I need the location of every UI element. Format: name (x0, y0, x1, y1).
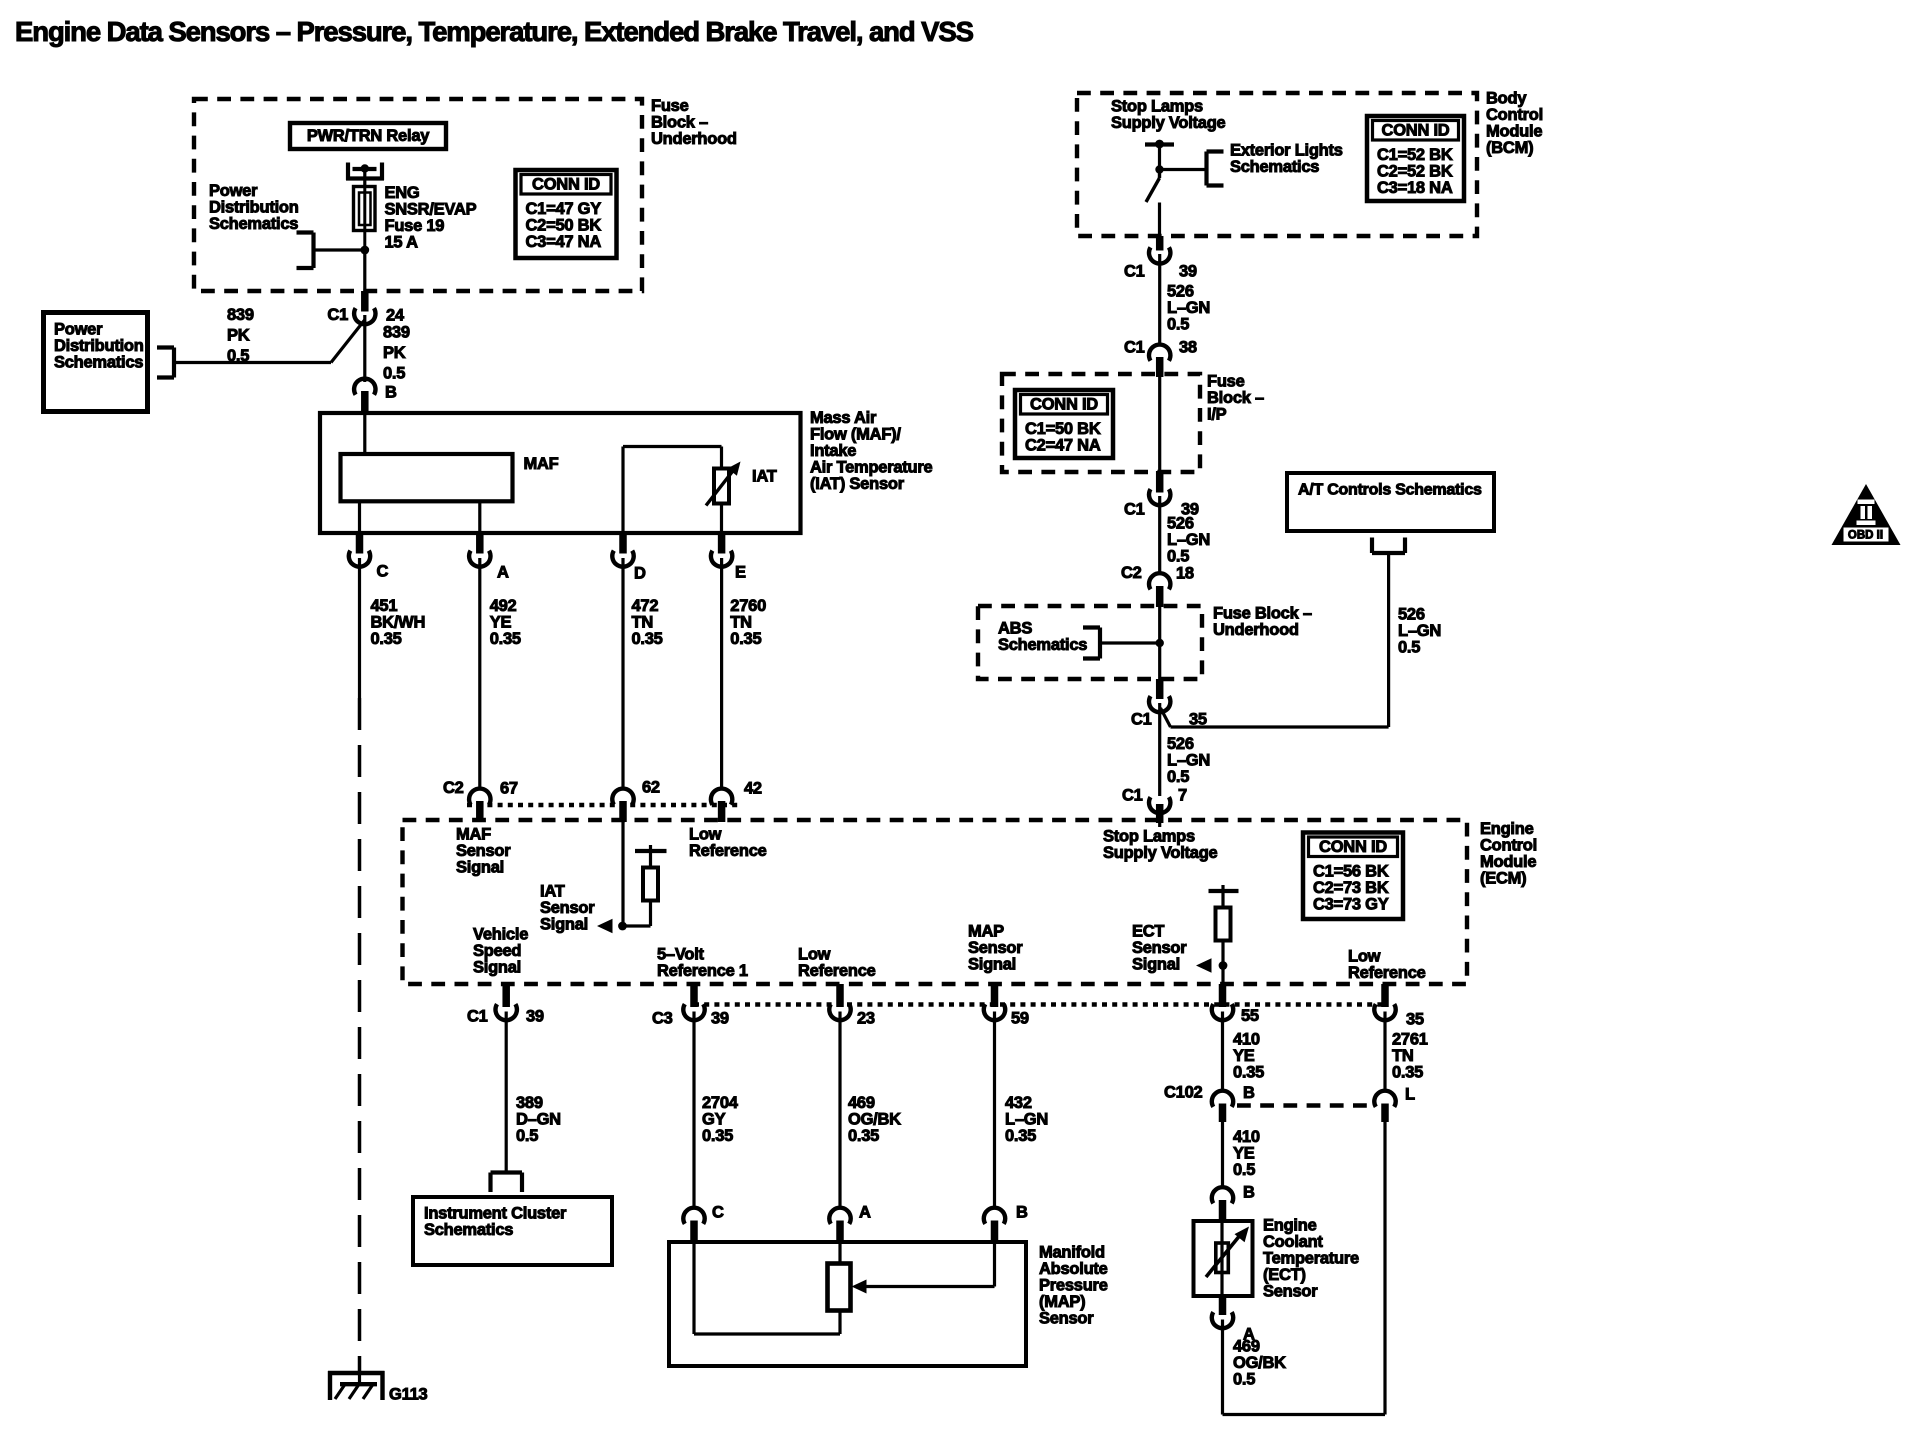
off-page connector to instrument cluster (491, 1170, 523, 1174)
wire 526 L-GN 0.5 (BCM to I/P) (1158, 254, 1161, 343)
box MAP sensor (669, 1242, 1026, 1366)
wire through fuse block I/P (1158, 377, 1161, 471)
conn-id table Fuse Block I/P (1015, 390, 1113, 458)
wire 2760 TN 0.35 (pin E) (720, 558, 723, 787)
svg-text:C2=52 BK: C2=52 BK (1377, 162, 1453, 180)
svg-text:24: 24 (386, 307, 405, 325)
wire 2704 GY 0.35 (692, 1012, 695, 1207)
svg-text:Power: Power (54, 321, 103, 339)
wire 839 PK 0.5 to Power Distribution Schematics (174, 361, 331, 364)
wire 526 L-GN 0.5 to ECM (1158, 703, 1161, 796)
svg-text:55: 55 (1241, 1007, 1259, 1025)
svg-text:0.5: 0.5 (383, 364, 405, 382)
svg-text:A: A (859, 1204, 871, 1222)
svg-text:B: B (1243, 1184, 1255, 1202)
svg-text:B: B (1243, 1084, 1255, 1102)
svg-text:Distribution: Distribution (54, 337, 144, 355)
svg-text:Reference 1: Reference 1 (657, 962, 748, 980)
OBD II symbol (1832, 484, 1901, 545)
svg-text:MAP: MAP (968, 923, 1004, 941)
svg-text:Reference: Reference (1348, 964, 1426, 982)
svg-text:Schematics: Schematics (1230, 158, 1319, 176)
svg-text:472: 472 (632, 597, 659, 615)
svg-text:Stop Lamps: Stop Lamps (1103, 828, 1195, 846)
svg-text:410: 410 (1233, 1128, 1260, 1146)
box Engine Control Module ECM (dashed) (403, 820, 1468, 984)
svg-text:C1=47 GY: C1=47 GY (526, 200, 602, 218)
svg-text:C2=50 BK: C2=50 BK (526, 216, 602, 234)
svg-text:Schematics: Schematics (54, 354, 143, 372)
svg-text:C3: C3 (652, 1010, 673, 1028)
svg-text:Reference: Reference (798, 962, 876, 980)
connector ECM C3 pin 23 (836, 984, 844, 1007)
arrow ECT Sensor Signal (1196, 958, 1212, 973)
svg-text:15 A: 15 A (385, 234, 419, 252)
svg-text:G113: G113 (389, 1386, 428, 1404)
svg-text:CONN ID: CONN ID (1382, 122, 1450, 140)
svg-text:7: 7 (1178, 787, 1187, 805)
connector MAP pin C (683, 1208, 704, 1224)
wire 451 BK/WH 0.35 (pin C, solid part) (358, 558, 361, 698)
svg-text:0.5: 0.5 (1167, 316, 1189, 334)
svg-text:Low: Low (1348, 948, 1381, 966)
svg-text:C3=18 NA: C3=18 NA (1377, 179, 1453, 197)
svg-text:0.35: 0.35 (1005, 1127, 1036, 1145)
svg-text:Vehicle: Vehicle (473, 926, 528, 944)
ECT variable arrow (1206, 1234, 1241, 1277)
connector line ECM bottom (dotted) (694, 1002, 1385, 1006)
svg-text:C2=73 BK: C2=73 BK (1313, 879, 1389, 897)
wire 410 YE 0.35 (1221, 1012, 1224, 1090)
svg-text:2761: 2761 (1392, 1031, 1428, 1049)
svg-text:389: 389 (516, 1094, 543, 1112)
wire IAT signal inside ECM (621, 822, 624, 926)
MAF sensing element (341, 454, 513, 501)
svg-text:C: C (712, 1204, 724, 1222)
svg-text:Manifold: Manifold (1039, 1244, 1105, 1262)
connector BCM C1 pin 39 (1156, 236, 1164, 251)
wire IAT leg E (720, 504, 723, 534)
off-page bracket Exterior Lights Schematics (1204, 152, 1208, 186)
svg-text:SNSR/EVAP: SNSR/EVAP (385, 201, 477, 219)
connector C1 pin 24 (361, 291, 369, 312)
svg-text:IAT: IAT (540, 883, 565, 901)
junction ECT sensor signal (1219, 961, 1228, 970)
svg-text:GY: GY (702, 1111, 726, 1129)
svg-text:ECT: ECT (1132, 923, 1164, 941)
connector line ECM C2 (dotted) (467, 803, 741, 807)
svg-text:Schematics: Schematics (424, 1221, 513, 1239)
svg-text:0.35: 0.35 (730, 630, 761, 648)
box ECT sensor (1194, 1221, 1253, 1296)
svg-text:39: 39 (526, 1008, 544, 1026)
svg-text:Low: Low (798, 946, 831, 964)
svg-text:0.35: 0.35 (1392, 1064, 1423, 1082)
svg-text:Flow (MAF)/: Flow (MAF)/ (810, 426, 901, 444)
svg-text:E: E (735, 564, 746, 582)
connector ECM C1 pin 7 (1149, 797, 1170, 813)
wire IAT leg D (621, 447, 624, 534)
svg-text:MAF: MAF (524, 455, 559, 473)
wire BCM supply to switch (1158, 145, 1161, 171)
svg-text:Body: Body (1486, 90, 1527, 108)
svg-text:469: 469 (1233, 1338, 1260, 1356)
svg-text:A: A (497, 564, 509, 582)
off-page connector A/T controls (1372, 551, 1405, 555)
junction IAT sensor signal (618, 922, 627, 931)
connector ECM C3 pin 39 (690, 984, 698, 1007)
wire 839 PK 0.5 branch diagonal (331, 320, 365, 363)
relay contact terminal symbol (346, 163, 350, 181)
connector ECM C3 pin 59 (991, 984, 999, 1007)
svg-text:B: B (385, 384, 397, 402)
svg-text:Sensor: Sensor (1132, 939, 1187, 957)
svg-text:ABS: ABS (998, 620, 1032, 638)
svg-text:Mass Air: Mass Air (810, 409, 877, 427)
IAT pull-up resistor (649, 851, 652, 868)
MAP potentiometer (838, 1311, 841, 1335)
wire ECT return to low reference (1223, 1413, 1386, 1416)
wire to G113 (dashed) (358, 698, 362, 1372)
IAT variable arrow (706, 470, 734, 506)
wire ABS branch (1100, 641, 1160, 644)
svg-text:Module: Module (1480, 853, 1536, 871)
svg-text:432: 432 (1005, 1094, 1032, 1112)
svg-text:C1: C1 (1124, 501, 1145, 519)
connector ECT pin B (1212, 1187, 1233, 1203)
off-page bracket to Power Distribution Schematics (311, 233, 315, 269)
svg-text:C3=73 GY: C3=73 GY (1313, 895, 1389, 913)
svg-text:451: 451 (371, 597, 398, 615)
svg-text:Signal: Signal (456, 859, 504, 877)
svg-text:410: 410 (1233, 1031, 1260, 1049)
svg-text:526: 526 (1167, 735, 1194, 753)
svg-text:492: 492 (490, 597, 517, 615)
svg-text:526: 526 (1167, 283, 1194, 301)
svg-text:Fuse 19: Fuse 19 (385, 217, 445, 235)
junction BCM switch (1155, 165, 1163, 173)
svg-text:(IAT) Sensor: (IAT) Sensor (810, 475, 905, 493)
svg-text:(ECM): (ECM) (1480, 870, 1526, 888)
connector ECM C2 pin 62 (612, 789, 633, 805)
svg-text:Engine: Engine (1480, 820, 1534, 838)
svg-text:L–GN: L–GN (1005, 1111, 1048, 1129)
off-page bracket ABS Schematics (1098, 628, 1102, 659)
connector MAF pin D (619, 531, 627, 554)
wire 526 L-GN 0.5 (I/P to underhood) (1158, 496, 1161, 572)
connector C102 pin B (1212, 1091, 1233, 1107)
wire fuse to connector C1-24 (363, 250, 366, 293)
svg-text:0.5: 0.5 (516, 1127, 538, 1145)
junction ABS (1156, 639, 1164, 647)
svg-text:C1: C1 (327, 306, 348, 324)
svg-text:C3=47 NA: C3=47 NA (526, 233, 602, 251)
svg-text:839: 839 (227, 306, 254, 324)
IAT thermistor (714, 469, 729, 504)
svg-text:Stop Lamps: Stop Lamps (1111, 98, 1203, 116)
svg-text:OG/BK: OG/BK (848, 1111, 901, 1129)
svg-text:OBD II: OBD II (1848, 530, 1883, 542)
svg-text:CONN ID: CONN ID (1319, 838, 1387, 856)
connector I/P C1 pin 38 (1149, 345, 1170, 361)
connector I/P C1 pin 39 (1156, 471, 1164, 493)
svg-text:0.5: 0.5 (1167, 548, 1189, 566)
svg-text:Exterior Lights: Exterior Lights (1230, 142, 1343, 160)
svg-text:Sensor: Sensor (456, 842, 511, 860)
svg-text:PK: PK (383, 344, 406, 362)
svg-text:L–GN: L–GN (1398, 622, 1441, 640)
wire 389 D-GN 0.5 (505, 1012, 508, 1173)
svg-text:Distribution: Distribution (209, 199, 299, 217)
svg-text:Supply Voltage: Supply Voltage (1111, 114, 1226, 132)
ECT thermistor (1220, 1221, 1223, 1296)
wire through ABS fuse block (1158, 607, 1161, 679)
svg-text:Reference: Reference (689, 842, 767, 860)
svg-text:L–GN: L–GN (1167, 299, 1210, 317)
svg-text:OG/BK: OG/BK (1233, 1354, 1286, 1372)
wire 469 OG/BK 0.35 (838, 1012, 841, 1207)
svg-text:(BCM): (BCM) (1486, 139, 1533, 157)
svg-text:Block –: Block – (1207, 389, 1264, 407)
svg-text:Signal: Signal (1132, 956, 1180, 974)
box Fuse Block I/P (dashed) (1002, 374, 1200, 472)
connector MAF pin B (354, 379, 375, 395)
svg-text:0.35: 0.35 (371, 630, 402, 648)
wire relay to fuse (363, 169, 366, 188)
wire MAF element pin A (478, 501, 481, 533)
svg-text:C1: C1 (467, 1008, 488, 1026)
svg-text:Supply Voltage: Supply Voltage (1103, 844, 1218, 862)
svg-text:ENG: ENG (385, 184, 420, 202)
svg-text:TN: TN (632, 614, 654, 632)
connector ECM C3 pin 55 (1219, 984, 1227, 1007)
wire 526 L-GN 0.5 from A/T controls (1387, 553, 1390, 727)
svg-text:0.35: 0.35 (490, 630, 521, 648)
svg-text:C1=56 BK: C1=56 BK (1313, 863, 1389, 881)
svg-text:Absolute: Absolute (1039, 1260, 1108, 1278)
svg-text:MAF: MAF (456, 826, 491, 844)
wire 2761 TN 0.35 (1383, 1012, 1386, 1090)
connector MAF pin A (476, 531, 484, 554)
svg-text:PWR/TRN Relay: PWR/TRN Relay (307, 127, 430, 145)
svg-text:YE: YE (1233, 1145, 1255, 1163)
svg-text:C1: C1 (1131, 711, 1152, 729)
wire to exterior lights bracket (1160, 168, 1207, 171)
svg-text:C1=50 BK: C1=50 BK (1025, 420, 1101, 438)
svg-text:Power: Power (209, 182, 258, 200)
svg-text:Schematics: Schematics (998, 636, 1087, 654)
svg-text:C102: C102 (1164, 1084, 1203, 1102)
box Body Control Module BCM (dashed) (1077, 93, 1477, 236)
svg-text:5–Volt: 5–Volt (657, 946, 705, 964)
ECT pull-up supply bar (1209, 889, 1239, 893)
wire 410 YE 0.5 (1221, 1122, 1224, 1186)
svg-text:D–GN: D–GN (516, 1111, 561, 1129)
svg-text:Underhood: Underhood (1213, 621, 1299, 639)
svg-text:Sensor: Sensor (540, 899, 595, 917)
wire MAP pin B internal (993, 1242, 996, 1287)
svg-text:A/T Controls Schematics: A/T Controls Schematics (1298, 482, 1482, 499)
wire MAP pin C internal (692, 1242, 695, 1334)
wire switch to BCM connector (1158, 203, 1161, 237)
svg-text:L–GN: L–GN (1167, 752, 1210, 770)
svg-text:469: 469 (848, 1094, 875, 1112)
svg-text:BK/WH: BK/WH (371, 614, 426, 632)
svg-text:Schematics: Schematics (209, 215, 298, 233)
svg-text:Control: Control (1480, 837, 1537, 855)
fuse ENG SNSR/EVAP Fuse 19 15 A (354, 187, 376, 231)
svg-text:C1: C1 (1124, 339, 1145, 357)
svg-text:CONN ID: CONN ID (532, 176, 600, 194)
svg-text:Sensor: Sensor (1039, 1310, 1094, 1328)
svg-text:I/P: I/P (1207, 406, 1227, 424)
svg-text:C1: C1 (1122, 787, 1143, 805)
svg-text:23: 23 (857, 1010, 875, 1028)
wire C1-24 down to MAF connector B (363, 315, 366, 382)
svg-text:C2: C2 (1121, 564, 1142, 582)
BCM supply bar (1145, 142, 1174, 146)
connector ECM C2 pin 67 (469, 789, 490, 805)
svg-text:42: 42 (744, 780, 762, 798)
svg-text:C2: C2 (443, 779, 464, 797)
connector ECM C3 pin 35 (1381, 984, 1389, 1007)
svg-text:YE: YE (490, 614, 512, 632)
connector ECT pin A (1219, 1296, 1227, 1315)
svg-text:67: 67 (500, 780, 518, 798)
svg-text:D: D (634, 565, 646, 583)
svg-text:L: L (1405, 1086, 1415, 1104)
wire 472 TN 0.35 (pin D) (621, 558, 624, 787)
ground G113 (328, 1371, 385, 1375)
conn-id table Fuse Block Underhood (516, 170, 617, 258)
svg-text:Control: Control (1486, 106, 1543, 124)
stop lamp switch blade (1158, 170, 1161, 179)
svg-text:Underhood: Underhood (651, 130, 737, 148)
svg-text:0.35: 0.35 (632, 630, 663, 648)
svg-text:39: 39 (1179, 263, 1197, 281)
IAT pull-up supply bar (635, 849, 667, 853)
svg-text:Engine: Engine (1263, 1217, 1317, 1235)
svg-text:0.5: 0.5 (1167, 768, 1189, 786)
svg-text:59: 59 (1011, 1010, 1029, 1028)
svg-text:0.5: 0.5 (227, 347, 249, 365)
svg-text:PK: PK (227, 326, 250, 344)
svg-text:Fuse: Fuse (651, 97, 689, 115)
svg-text:Module: Module (1486, 123, 1542, 141)
junction below fuse (360, 246, 369, 255)
wire 492 YE 0.35 (pin A) (478, 558, 481, 787)
svg-text:C1=52 BK: C1=52 BK (1377, 146, 1453, 164)
svg-text:Signal: Signal (540, 916, 588, 934)
svg-text:TN: TN (1392, 1047, 1414, 1065)
relay PWR/TRN Relay (290, 123, 446, 149)
box Instrument Cluster Schematics (413, 1197, 612, 1265)
svg-text:Signal: Signal (968, 956, 1016, 974)
wire MAF element pin C (358, 501, 361, 533)
off-page bracket from Power Distribution Schematics box (172, 348, 176, 378)
connector MAP pin B (984, 1208, 1005, 1224)
box Power Distribution Schematics (44, 313, 148, 412)
wire B into MAF element (363, 413, 366, 454)
svg-text:C2=47 NA: C2=47 NA (1025, 436, 1101, 454)
svg-text:(MAP): (MAP) (1039, 1293, 1085, 1311)
svg-text:Fuse Block –: Fuse Block – (1213, 605, 1312, 623)
svg-text:2704: 2704 (702, 1094, 739, 1112)
svg-text:C1: C1 (1124, 263, 1145, 281)
MAP wiper arrow (852, 1280, 867, 1294)
svg-text:Speed: Speed (473, 942, 521, 960)
conn-id table ECM (1303, 833, 1403, 920)
svg-text:18: 18 (1176, 565, 1194, 583)
svg-text:(ECT): (ECT) (1263, 1266, 1306, 1284)
wire 469 OG/BK 0.5 (1221, 1320, 1224, 1415)
svg-text:Fuse: Fuse (1207, 373, 1245, 391)
svg-text:526: 526 (1167, 515, 1194, 533)
svg-text:0.35: 0.35 (702, 1127, 733, 1145)
box Fuse Block - Underhood ABS (dashed) (978, 606, 1202, 679)
connector ECM C2 pin 42 (711, 789, 732, 805)
wire fuse output to off-page bracket (314, 248, 365, 251)
svg-text:YE: YE (1233, 1047, 1255, 1065)
conn-id table BCM (1367, 116, 1464, 201)
svg-text:839: 839 (383, 324, 410, 342)
svg-text:IAT: IAT (752, 468, 777, 486)
svg-text:Block –: Block – (651, 114, 708, 132)
svg-text:35: 35 (1406, 1011, 1424, 1029)
svg-text:0.35: 0.35 (1233, 1064, 1264, 1082)
svg-text:Signal: Signal (473, 959, 521, 977)
svg-text:Sensor: Sensor (968, 939, 1023, 957)
svg-text:Temperature: Temperature (1263, 1250, 1359, 1268)
svg-text:L–GN: L–GN (1167, 531, 1210, 549)
svg-text:C: C (377, 563, 389, 581)
connector MAF pin C (356, 531, 364, 554)
svg-text:0.5: 0.5 (1398, 639, 1420, 657)
svg-text:Low: Low (689, 826, 722, 844)
wire stop lamps stub inside ECM (1158, 820, 1161, 827)
connector underhood C1 pin 35 (1156, 679, 1164, 699)
svg-text:62: 62 (642, 779, 660, 797)
svg-text:0.35: 0.35 (848, 1127, 879, 1145)
wire 432 L-GN 0.35 (993, 1012, 996, 1207)
svg-text:0.5: 0.5 (1233, 1371, 1255, 1389)
svg-text:B: B (1016, 1204, 1028, 1222)
ECT pull-up resistor (1221, 891, 1224, 908)
arrow IAT Sensor Signal (597, 919, 613, 934)
wire resistor to IAT junction (623, 924, 651, 927)
svg-text:2760: 2760 (730, 597, 766, 615)
svg-text:Pressure: Pressure (1039, 1277, 1108, 1295)
svg-text:526: 526 (1398, 606, 1425, 624)
svg-text:Air Temperature: Air Temperature (810, 459, 933, 477)
svg-text:Coolant: Coolant (1263, 1233, 1323, 1251)
connector ECM C1 pin 39 (502, 984, 510, 1007)
connector line C102 (dashed) (1237, 1103, 1371, 1107)
connector underhood C2 pin 18 (1149, 573, 1170, 589)
svg-text:39: 39 (711, 1010, 729, 1028)
svg-text:Engine Data Sensors – Pressure: Engine Data Sensors – Pressure, Temperat… (15, 16, 974, 47)
svg-text:Intake: Intake (810, 442, 856, 460)
svg-text:Sensor: Sensor (1263, 1283, 1318, 1301)
connector MAP pin A (829, 1208, 850, 1224)
svg-text:0.5: 0.5 (1233, 1161, 1255, 1179)
box Fuse Block - Underhood (dashed) (194, 99, 642, 291)
svg-text:TN: TN (730, 614, 752, 632)
connector MAF pin E (718, 531, 726, 554)
connector C102 pin L (1374, 1091, 1395, 1107)
box A/T Controls Schematics (1287, 473, 1494, 531)
svg-text:CONN ID: CONN ID (1030, 396, 1098, 414)
